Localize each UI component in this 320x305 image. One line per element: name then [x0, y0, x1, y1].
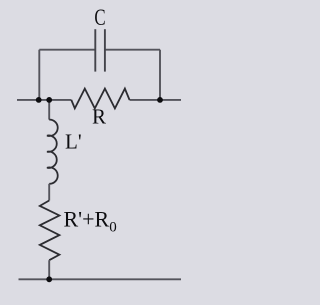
node junction dot left (cap branch / main line): [36, 97, 42, 103]
wire: capacitor loop left vertical: [38, 50, 40, 100]
wire: resistor R'+R0 to bottom line: [48, 260, 50, 279]
wire: capacitor loop top-right horizontal: [105, 49, 160, 51]
resistor R'+R0 (vertical zigzag): [40, 201, 60, 261]
wire: top main horizontal right segment: [130, 99, 182, 101]
inductor L' coil (4 arcs): [47, 120, 58, 184]
node junction dot bottom (series branch / bottom line): [46, 276, 52, 282]
capacitor C plates: [94, 29, 96, 71]
wire: capacitor loop right vertical: [159, 50, 161, 100]
svg-text:R: R: [92, 104, 106, 128]
wire: top main horizontal left segment: [17, 99, 71, 101]
node junction dot right (cap branch / main line): [157, 97, 163, 103]
svg-text:L': L': [65, 130, 82, 154]
node junction dot (series branch / main line): [46, 97, 52, 103]
wire: inductor to resistor R'+R0: [48, 184, 50, 201]
svg-text:R'+R0: R'+R0: [64, 207, 117, 236]
svg-text:C: C: [94, 5, 105, 30]
resistor R (horizontal zigzag): [71, 89, 129, 109]
wire: bottom horizontal: [19, 278, 182, 280]
wire: capacitor loop top-left horizontal: [39, 49, 95, 51]
wire: branch junction to inductor: [48, 100, 50, 120]
